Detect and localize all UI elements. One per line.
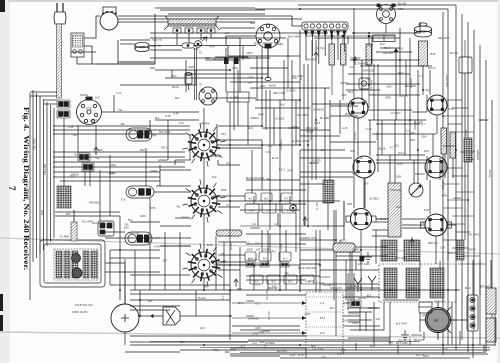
wire h142: [350, 329, 384, 331]
wire h48: [300, 259, 360, 261]
svg-text:6X5: 6X5: [347, 202, 353, 206]
wire v57: [439, 158, 441, 180]
junction 29: [353, 59, 355, 61]
wire h37: [55, 211, 120, 213]
wire h78: [412, 111, 427, 113]
wire h79: [376, 218, 388, 220]
wire m3 arrow v: [395, 48, 397, 120]
wire rside 16: [443, 239, 456, 241]
svg-text:5W4G: 5W4G: [80, 93, 89, 97]
wire v134: [179, 232, 181, 290]
svg-text:3/TB: 3/TB: [287, 169, 293, 173]
wire h115: [105, 237, 160, 239]
wire h107: [376, 162, 425, 164]
svg-text:YEL-GRN: YEL-GRN: [297, 113, 308, 117]
svg-text:RED-GR: RED-GR: [447, 251, 457, 255]
svg-text:G-2: G-2: [350, 65, 355, 69]
cap blk C2: [280, 262, 289, 267]
wire h29: [300, 171, 353, 173]
wire v2: [233, 60, 235, 130]
range switch dotted box: [306, 292, 343, 348]
wire plug-choke: [84, 16, 100, 38]
svg-text:20M: 20M: [421, 134, 426, 138]
cap box D1: [267, 275, 280, 284]
svg-text:SL-RED: SL-RED: [265, 341, 275, 345]
wire v29: [339, 100, 341, 134]
wire v118: [159, 165, 161, 181]
scan fold line lower: [0, 332, 500, 338]
svg-text:GRN: GRN: [232, 67, 238, 70]
page left margin band: [0, 0, 10, 363]
wire fan 5: [53, 161, 185, 163]
svg-text:BLK: BLK: [330, 307, 335, 310]
wire v47: [404, 95, 406, 155]
svg-text:ORANGE: ORANGE: [411, 333, 422, 337]
resistor bottom B box: [350, 300, 361, 307]
svg-text:GRND: GRND: [340, 81, 348, 85]
wire v14: [283, 60, 285, 100]
wire rside 18: [462, 255, 480, 257]
wire v30: [343, 201, 345, 240]
volume control: [409, 183, 423, 197]
junction 13: [203, 344, 205, 346]
wire v27: [333, 210, 335, 300]
wire r3 dn: [342, 65, 344, 100]
wire v107: [295, 213, 297, 252]
wire h32: [156, 185, 191, 187]
wire rside 8: [452, 175, 468, 177]
svg-text:1UF: 1UF: [72, 133, 77, 137]
wire h36: [218, 206, 240, 208]
svg-text:YEL: YEL: [95, 157, 100, 160]
wire h137: [300, 249, 336, 251]
svg-text:B/TB: B/TB: [207, 243, 213, 247]
svg-text:C-45: C-45: [173, 112, 179, 116]
svg-text:BLK: BLK: [40, 210, 44, 215]
tube V13 socket: [421, 214, 452, 236]
wire h85: [336, 251, 360, 253]
tube V12 socket: [346, 209, 376, 230]
wire v13: [279, 100, 281, 290]
svg-text:2/10: 2/10: [200, 327, 205, 330]
wire h7: [96, 63, 155, 65]
wire v153: [419, 313, 421, 332]
svg-text:6E5: 6E5: [250, 21, 256, 25]
wire v19: [299, 150, 301, 292]
wire right bus 1: [447, 9, 449, 345]
svg-text:BLUE: BLUE: [398, 1, 406, 5]
tuner comb 1: [56, 251, 62, 278]
svg-text:RED-GR: RED-GR: [263, 41, 273, 45]
wire rside 17: [452, 247, 468, 249]
arrow sym 0: [234, 279, 238, 287]
wire rside 13: [452, 215, 474, 217]
line filter: [71, 33, 84, 57]
padder P2 box: [57, 110, 70, 118]
svg-text:YEL-GRN: YEL-GRN: [405, 84, 416, 88]
resistor R7 body: [441, 128, 447, 154]
dial lamp circle: [111, 296, 139, 332]
svg-text:6K7: 6K7: [348, 90, 354, 94]
wire h119: [105, 271, 160, 273]
wire redcom v2: [196, 48, 198, 100]
wire h113: [240, 209, 300, 211]
arrow m3: [394, 48, 399, 52]
resistor R6 box: [82, 163, 94, 171]
wire v40: [373, 64, 375, 120]
choke right B body: [486, 318, 496, 342]
svg-text:1UF: 1UF: [292, 76, 297, 80]
wire h34: [218, 195, 245, 197]
wire v34: [349, 252, 351, 300]
resistor R1: [182, 43, 194, 48]
svg-text:C-45: C-45: [366, 128, 372, 131]
svg-text:B-1: B-1: [264, 197, 269, 201]
wire h74: [372, 133, 436, 135]
svg-text:YELLOW: YELLOW: [445, 75, 449, 87]
svg-text:.1UF: .1UF: [470, 149, 476, 153]
wire v11: [269, 90, 271, 230]
wire h75: [120, 61, 155, 63]
svg-text:BLK: BLK: [128, 219, 133, 222]
svg-text:BLUE: BLUE: [488, 170, 492, 177]
svg-text:BLK: BLK: [394, 144, 399, 148]
svg-text:BLK-WHT: BLK-WHT: [396, 322, 408, 326]
wire h114: [246, 233, 306, 235]
electrolytic C3: [419, 41, 428, 66]
wire v22: [311, 40, 313, 104]
svg-text:C-15: C-15: [342, 127, 348, 130]
svg-text:B-5: B-5: [271, 280, 276, 284]
wire h117: [110, 257, 160, 259]
svg-text:1UF: 1UF: [162, 258, 167, 262]
r2 top dot: [331, 35, 334, 38]
svg-text:O-5: O-5: [249, 75, 254, 79]
wire h86: [320, 269, 379, 271]
svg-text:.1UF: .1UF: [211, 175, 217, 179]
wire fan 4: [53, 156, 185, 158]
wire v103: [375, 230, 377, 264]
wire shelf drop3: [200, 33, 202, 40]
comb strip A: [464, 138, 472, 162]
cap box A1: [261, 193, 272, 201]
wire h26: [175, 159, 191, 161]
wire v131: [134, 250, 136, 290]
wire rside 15: [456, 231, 470, 233]
wire right bus 7: [485, 60, 487, 352]
wire v82: [203, 108, 205, 132]
wire h19: [330, 115, 358, 117]
svg-text:GRND: GRND: [150, 169, 158, 173]
svg-text:RED: RED: [260, 85, 265, 88]
cap box C13 rect: [459, 57, 472, 73]
trimmer dot inner: [292, 207, 294, 209]
svg-text:RE-3: RE-3: [247, 126, 253, 130]
tuner comb 2: [64, 251, 70, 278]
wire h63: [248, 339, 390, 341]
svg-text:SL-RED: SL-RED: [414, 120, 424, 124]
svg-text:C-45: C-45: [290, 353, 296, 357]
arrow sym 3: [410, 239, 414, 247]
wire v52: [426, 95, 428, 112]
wire bend 10: [426, 156, 428, 180]
arrow sw: [150, 314, 154, 318]
wire h98: [150, 49, 182, 51]
cap blk C1: [260, 262, 269, 267]
svg-text:.05UF: .05UF: [366, 43, 373, 47]
svg-text:BLK: BLK: [396, 205, 401, 209]
wire bus extra2: [240, 352, 486, 354]
svg-text:RED: RED: [386, 95, 392, 99]
wire bus extra1: [200, 347, 490, 349]
wire h96: [150, 57, 270, 59]
wire v38: [369, 120, 371, 156]
wire v147: [423, 332, 425, 340]
wire rside 4: [456, 131, 474, 133]
range row dots 2: [308, 326, 341, 328]
tube V8 socket: [348, 98, 368, 118]
wire v96: [337, 36, 339, 60]
junction 10: [353, 32, 355, 34]
wire h68: [255, 99, 300, 101]
ps comb 2: [404, 240, 420, 261]
ext gnd symbol 2: [364, 252, 372, 262]
wire v74: [355, 260, 357, 270]
wire right bus 4: [467, 22, 469, 352]
wire h43: [154, 237, 191, 239]
svg-text:BLK-WHT: BLK-WHT: [288, 34, 301, 38]
svg-text:ORANGE: ORANGE: [363, 69, 374, 73]
svg-text:GRND: GRND: [230, 242, 233, 250]
svg-text:BROWN: BROWN: [306, 58, 316, 62]
svg-text:YEL-GRN: YEL-GRN: [313, 348, 324, 352]
wire v48: [409, 38, 411, 160]
svg-text:SL-WT: SL-WT: [316, 202, 319, 210]
wire h35: [218, 200, 340, 202]
svg-text:GRN: GRN: [423, 354, 429, 358]
wire v79: [174, 160, 176, 165]
wire v116: [145, 148, 147, 186]
svg-text:G-4: G-4: [226, 204, 231, 207]
wire right bus 8: [491, 100, 493, 340]
wire h50: [218, 269, 240, 271]
wire h135: [402, 227, 430, 229]
choke right A body: [486, 288, 496, 314]
svg-text:GRND: GRND: [181, 215, 189, 219]
svg-text:EXT GND: EXT GND: [358, 262, 370, 266]
svg-text:GRN: GRN: [409, 138, 415, 142]
wire h16: [44, 99, 57, 101]
wire h15: [30, 95, 57, 97]
svg-text:6D6: 6D6: [272, 285, 277, 289]
svg-text:BLACK: BLACK: [376, 131, 379, 140]
wire h122: [346, 287, 380, 289]
wire h118: [218, 261, 246, 263]
wire h64: [130, 344, 496, 346]
svg-text:X/TB: X/TB: [340, 349, 346, 352]
svg-text:HAR-GRN: HAR-GRN: [330, 287, 342, 290]
wire h2: [120, 39, 150, 41]
svg-text:.1UF: .1UF: [366, 76, 372, 80]
wire v110: [277, 213, 279, 226]
arrow range 1: [302, 316, 306, 320]
wire v129: [84, 171, 86, 186]
svg-text:.1UF: .1UF: [375, 317, 381, 321]
wire v9: [261, 140, 263, 190]
left edge mark B: [0, 315, 3, 331]
left edge mark A: [0, 294, 3, 311]
wire left bus 1: [32, 90, 34, 262]
svg-text:RE-3: RE-3: [314, 121, 320, 125]
wire bus 36: [306, 35, 395, 37]
svg-text:ORANGE: ORANGE: [390, 189, 401, 192]
svg-text:1UF: 1UF: [364, 181, 369, 185]
svg-text:BLATE: BLATE: [450, 52, 458, 55]
trimmer T2: [72, 268, 82, 278]
svg-text:RE-3: RE-3: [384, 46, 390, 50]
wire h66: [230, 353, 488, 355]
wire v20: [303, 64, 305, 226]
svg-text:RED-GREEN: RED-GREEN: [330, 29, 347, 33]
svg-text:.05UF: .05UF: [341, 319, 348, 323]
svg-text:B-1: B-1: [288, 280, 293, 284]
wire h17: [44, 103, 57, 105]
wire v135: [195, 290, 197, 316]
v1 stem cap: [265, 77, 271, 80]
wire fan 1: [53, 129, 190, 131]
svg-text:K-7: K-7: [384, 283, 389, 287]
wire v142: [355, 343, 357, 350]
wire v23: [315, 40, 317, 180]
wire v33: [353, 118, 355, 208]
wire v36: [360, 230, 362, 290]
tube V11 socket: [425, 156, 447, 178]
arrow gnd cluster: [303, 217, 307, 226]
svg-text:Y/TB: Y/TB: [230, 349, 236, 352]
wire v81: [195, 70, 197, 85]
cap bottom A rect: [419, 302, 432, 313]
if can T1: [126, 128, 152, 141]
wire h4: [71, 51, 96, 53]
junction 18: [119, 289, 121, 291]
cap box C1: [259, 252, 271, 261]
wire v114: [327, 203, 329, 230]
wire h88: [343, 302, 350, 304]
wire v31: [347, 36, 349, 44]
svg-text:BROWN: BROWN: [414, 338, 424, 342]
wire h22: [218, 139, 262, 141]
wire shelf top: [160, 9, 265, 11]
wire v63: [472, 260, 474, 295]
svg-text:X/TB: X/TB: [304, 312, 310, 316]
wire v58: [444, 154, 446, 178]
wire v69: [439, 261, 441, 268]
wire right bus 3: [461, 14, 463, 340]
wire h76: [250, 67, 288, 69]
junction 3: [279, 200, 281, 202]
junction 24: [261, 125, 263, 127]
wire shelf feed: [120, 14, 155, 64]
wire v122: [109, 155, 111, 216]
svg-text:6-7: 6-7: [267, 209, 271, 213]
junction 6: [279, 289, 281, 291]
svg-text:.05UF: .05UF: [257, 112, 264, 116]
svg-text:X/TB: X/TB: [165, 115, 171, 118]
svg-text:RE-3: RE-3: [161, 146, 167, 150]
cap can C1: [135, 42, 149, 51]
junction 42: [203, 289, 205, 291]
arrow range 2: [302, 331, 306, 335]
svg-text:.1UF: .1UF: [320, 148, 326, 152]
wire v136: [215, 236, 217, 290]
junction 48: [261, 77, 263, 79]
svg-text:RED: RED: [398, 72, 403, 75]
junction 19: [139, 315, 141, 317]
wire redcom v1: [194, 48, 196, 100]
power plug: [54, 3, 66, 24]
tuner assembly outline: [40, 240, 105, 287]
wire left bus 5: [46, 102, 48, 246]
wire rside 7: [447, 167, 462, 169]
svg-text:BROWN: BROWN: [415, 172, 425, 176]
junction 34: [442, 115, 444, 117]
wire v109: [257, 213, 259, 226]
antenna fork 2: [368, 276, 376, 290]
arrow sym 2: [314, 52, 318, 60]
wire h130: [130, 341, 248, 343]
svg-text:G-5: G-5: [320, 331, 325, 335]
electrolytic can C2: [415, 23, 432, 37]
wire h60: [348, 321, 360, 323]
svg-text:K-7: K-7: [94, 118, 99, 122]
svg-text:K-7: K-7: [419, 74, 424, 78]
wire v59: [452, 158, 454, 178]
svg-text:GRN: GRN: [270, 249, 276, 253]
wire range 0: [232, 302, 306, 304]
wire h28: [218, 164, 240, 166]
svg-text:RE-3: RE-3: [279, 168, 285, 172]
wire v112: [311, 104, 313, 180]
svg-text:ORG: ORG: [110, 163, 116, 167]
wire r4 dn: [368, 65, 370, 108]
wire h55: [246, 294, 306, 296]
wire bend 0: [105, 263, 125, 304]
terminal strip TS1: [302, 22, 348, 36]
wire v99: [405, 60, 407, 95]
wire h21: [218, 125, 262, 127]
antenna fork 1: [354, 278, 362, 292]
svg-text:BLK: BLK: [155, 117, 160, 120]
svg-text:GREEN: GREEN: [250, 117, 259, 120]
wire rside 5: [443, 145, 456, 147]
svg-text:1UF: 1UF: [95, 96, 100, 100]
junction 21: [472, 344, 474, 346]
svg-text:ORANGE: ORANGE: [357, 61, 368, 65]
junction 11: [368, 32, 370, 34]
wire range 2: [232, 332, 306, 334]
svg-text:.05UF: .05UF: [351, 248, 358, 252]
wire v68: [419, 261, 421, 268]
wire v125: [99, 170, 101, 221]
svg-text:7: 7: [7, 186, 17, 191]
wire v12: [273, 108, 275, 145]
junction 39: [279, 225, 281, 227]
svg-text:BLUE: BLUE: [379, 146, 386, 150]
tube V10 socket: [353, 156, 375, 178]
svg-text:YEL/TB: YEL/TB: [268, 311, 271, 320]
svg-text:K-7: K-7: [63, 192, 68, 196]
junction 31: [399, 59, 401, 61]
